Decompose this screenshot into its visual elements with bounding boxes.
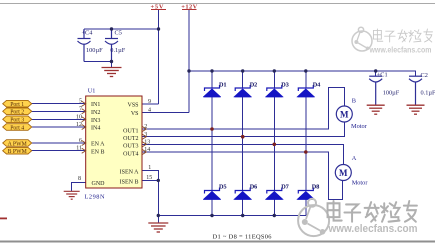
wire cap bottom rail [84,61,112,63]
svg-text:15: 15 [146,175,152,181]
sheet border bottom [0,241,435,243]
capacitor C4 [78,29,91,62]
svg-text:Port 2: Port 2 [10,110,24,116]
svg-text:L298N: L298N [85,193,105,200]
svg-text:D8: D8 [312,184,319,190]
svg-text:M: M [339,168,348,178]
wire ISEN B pin 15 [142,179,158,181]
svg-text:9: 9 [148,99,151,105]
wire port 4 to IN4 [32,126,86,128]
wire bottom sense rail [158,215,305,217]
sheet border top [0,3,435,5]
diode D5 [203,183,227,199]
watermark text bottom right [328,201,417,222]
junction node cap bottom / ground [110,60,113,63]
capacitor C2 [409,76,422,104]
wire D3 column [273,71,275,88]
char shao [381,202,400,222]
svg-text:5: 5 [79,99,82,105]
wire OUT3 to motor A top [142,144,343,164]
ground under C2 [407,105,425,114]
svg-text:100µF: 100µF [383,89,400,96]
ground under C1 [367,105,385,114]
char fa [365,202,379,222]
left edge red mark [0,218,7,220]
port tag B PWM [3,147,32,155]
junction node rail D3 [273,69,276,72]
svg-text:A PWM: A PWM [8,141,27,147]
wire +5V vertical to pin 9 [158,10,160,105]
diode D7 [265,183,289,199]
IC pin names right [120,103,140,186]
svg-text:ISEN B: ISEN B [120,180,139,186]
svg-text:Port 1: Port 1 [10,102,24,108]
wire D1 column [211,71,213,88]
diode D8 [297,183,320,199]
IC input pin arrows [82,101,147,154]
ground bottom mid [148,223,168,232]
wire +12V vertical to pin 4 [188,10,190,113]
svg-text:D1: D1 [219,82,226,88]
char zi [344,204,360,221]
svg-text:+C4: +C4 [82,30,94,37]
svg-text:M: M [340,109,349,119]
svg-text:8: 8 [78,176,81,182]
svg-text:Port 3: Port 3 [10,118,24,124]
power symbol +5V [151,9,166,11]
svg-text:OUT3: OUT3 [123,144,138,150]
wire pin 4 VS [142,112,189,114]
svg-text:www.elecfans.com: www.elecfans.com [369,46,432,55]
ground at GND pin 8 [64,191,80,199]
diode D3 [265,81,289,97]
wire OUT1 with loop to motor B top [142,88,344,129]
junction node OUT4 D4 [304,150,308,154]
IC U1 L298N body [86,96,142,188]
char you [404,201,417,222]
port tag Port 4 [3,124,32,132]
svg-text:OUT1: OUT1 [123,128,138,134]
svg-text:GND: GND [92,181,106,187]
wire A PWM to EN A [32,142,86,144]
svg-text:+C1: +C1 [377,72,388,79]
svg-text:U1: U1 [88,87,96,94]
char dian [328,201,342,221]
watermark text top right [373,29,432,42]
capacitor C1 [369,76,382,104]
wire pin 9 VSS [142,103,159,105]
svg-text:Motor: Motor [351,123,368,130]
svg-text:B: B [352,97,356,104]
svg-text:0.1µF: 0.1µF [110,47,125,54]
junction node bottom rail D7 [273,214,276,217]
svg-text:Motor: Motor [352,180,369,187]
svg-text:D6: D6 [250,184,257,190]
junction node OUT2 D2 [241,135,245,139]
IC pin names left [91,102,105,187]
wire +12V rail to C2 [189,71,416,76]
svg-text:www.elecfans.com: www.elecfans.com [328,223,418,235]
junction node +12V rail branch [187,69,190,72]
wire port 3 to IN3 [32,118,86,120]
junction node rail D2 [241,69,244,72]
watermark logo top right [352,27,372,51]
junction node rail D1 [210,69,213,72]
wire port 1 to IN1 [32,103,86,105]
svg-text:IN1: IN1 [91,102,100,108]
port tag A PWM [3,140,32,148]
svg-text:VS: VS [131,111,139,117]
svg-text:IN2: IN2 [91,110,100,116]
svg-text:4: 4 [148,108,151,114]
svg-text:100µF: 100µF [86,47,103,54]
svg-text:D7: D7 [281,184,288,190]
junction node OUT1 D1 [210,127,214,131]
junction node OUT3 D3 [273,143,277,147]
junction node bottom rail D5 [210,214,213,217]
diode D6 [234,183,258,199]
port tag Port 2 [3,108,32,116]
wire ground stub bottom mid [157,216,159,223]
svg-text:OUT4: OUT4 [123,151,138,157]
wire OUT2 to motor B bottom [142,122,344,137]
IC pin numbers right [144,99,152,181]
svg-text:C2: C2 [421,72,428,79]
junction node bottom rail D6 [241,214,244,217]
wire OUT4 loop to motor A bottom [142,152,343,199]
diode D4 [297,81,321,97]
wire GND pin 8 [72,183,86,192]
motor B [336,97,367,130]
wire C1 stub [375,71,377,76]
svg-text:EN B: EN B [91,149,105,155]
svg-text:11: 11 [76,146,82,152]
wire cap top rail [84,28,159,30]
ground under C5 [102,68,122,77]
svg-text:EN A: EN A [91,142,105,148]
svg-text:VSS: VSS [127,103,138,109]
junction node rail D4 [304,69,307,72]
junction node cap rail / C5 [110,27,113,30]
svg-text:D2: D2 [250,82,257,88]
IC pin numbers left [76,99,82,183]
svg-text:Port 4: Port 4 [10,125,24,131]
junction node rail C1 [374,69,377,72]
svg-text:6: 6 [79,138,82,144]
svg-text:D4: D4 [313,82,320,88]
svg-text:+5V: +5V [151,3,164,10]
wire D2 column [242,71,244,88]
diode D2 [234,81,258,97]
port tag Port 3 [3,116,32,124]
port tag Port 1 [3,100,32,108]
svg-text:0.1µF: 0.1µF [421,89,435,96]
junction node cap rail / +5V [157,27,160,30]
motor A [335,155,368,187]
svg-text:IN3: IN3 [91,118,100,124]
svg-text:OUT2: OUT2 [123,136,138,142]
watermark logo bottom right [298,199,329,236]
svg-text:10: 10 [76,114,82,120]
svg-text:A: A [352,155,357,162]
svg-text:B PWM: B PWM [8,149,27,155]
svg-text:12: 12 [76,122,82,128]
svg-text:ISEN A: ISEN A [120,170,140,176]
svg-text:C5: C5 [115,30,122,37]
wire B PWM to EN B [32,150,86,152]
wire ground stub under C5 [111,62,113,68]
junction node bottom rail left [157,214,160,217]
svg-text:D3: D3 [281,82,288,88]
capacitor C5 [105,29,118,62]
svg-text:D1 ~ D8 = 11EQS06: D1 ~ D8 = 11EQS06 [213,234,272,241]
svg-text:D5: D5 [219,184,226,190]
power symbol +12V [182,9,197,11]
svg-text:IN4: IN4 [91,126,100,132]
wire ISEN A pin 1 [142,170,158,215]
wire D4 column [305,71,307,88]
junction node ISEN join [157,179,160,182]
diode D1 [203,81,227,97]
wire port 2 to IN2 [32,110,86,112]
svg-text:1: 1 [148,165,151,171]
svg-text:+12V: +12V [181,3,197,10]
svg-text:7: 7 [79,106,82,112]
